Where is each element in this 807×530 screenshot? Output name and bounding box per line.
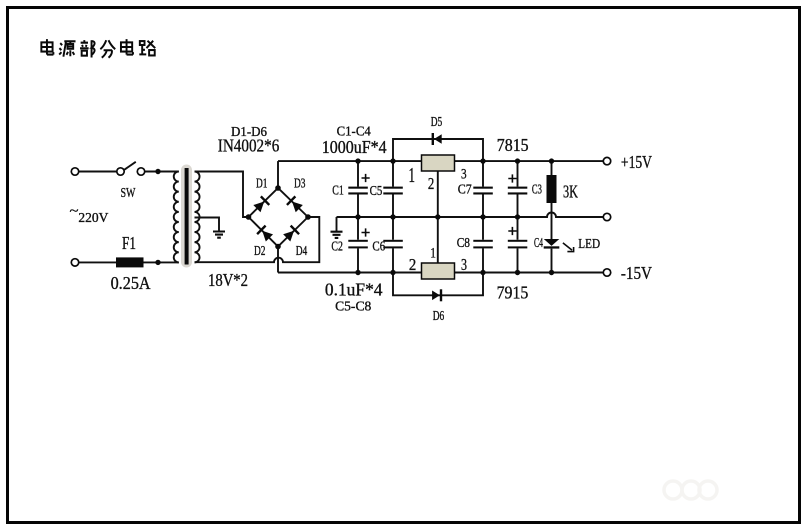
negative bottom rail	[278, 272, 603, 274]
svg-text:C3: C3	[532, 183, 542, 198]
diode D2	[256, 225, 273, 242]
regulator U2 7915 box	[422, 263, 455, 279]
C7/C8 column wires	[482, 161, 484, 272]
wire: secondary bottom to bridge right corner (hop over)	[195, 217, 320, 262]
terminal circles	[71, 157, 610, 276]
wire: fuse to transformer	[144, 261, 179, 263]
transformer secondary winding	[195, 172, 200, 263]
svg-text:2: 2	[428, 174, 434, 193]
junction dots	[155, 158, 554, 275]
svg-text:C1: C1	[332, 183, 344, 198]
svg-text:LED: LED	[578, 237, 600, 252]
C1 column wires	[357, 161, 359, 272]
fuse F1 body	[116, 257, 144, 267]
diode D6	[432, 289, 442, 301]
capacitor C3 plates	[508, 187, 528, 195]
svg-text:D3: D3	[294, 177, 306, 192]
svg-text:D6: D6	[433, 309, 445, 324]
svg-text:D5: D5	[431, 115, 443, 130]
svg-text:2: 2	[409, 255, 416, 274]
svg-text:F1: F1	[122, 233, 136, 253]
capacitor C4 plates	[508, 240, 528, 249]
svg-text:0.25A: 0.25A	[111, 273, 151, 293]
diode D3	[286, 196, 303, 213]
switch blade	[124, 162, 136, 170]
diode D4	[283, 225, 300, 242]
plus sign C1	[362, 174, 370, 182]
transformer primary winding	[174, 172, 179, 263]
svg-text:1000uF*4: 1000uF*4	[322, 137, 387, 157]
svg-text:18V*2: 18V*2	[208, 270, 248, 290]
3K / LED column wires	[551, 161, 553, 272]
wire: bridge top corner to +raw rail	[277, 161, 279, 188]
title char 路	[139, 41, 155, 56]
title char 部	[80, 40, 95, 57]
svg-text:220V: 220V	[78, 211, 108, 226]
resistor 3K body	[547, 175, 557, 203]
svg-text:SW: SW	[121, 186, 137, 201]
plus sign C4	[508, 227, 516, 235]
diode D1	[253, 196, 270, 213]
LED annotation arrow	[563, 243, 574, 252]
svg-text:D4: D4	[296, 244, 308, 259]
mid rail (0V) with hop over 3K wire	[337, 213, 604, 218]
title char 电	[41, 39, 53, 54]
svg-text:-15V: -15V	[621, 263, 652, 283]
title char 电	[121, 39, 133, 54]
ground G1 bars (center tap)	[213, 232, 225, 238]
svg-text:C4: C4	[534, 236, 543, 251]
svg-text:C7: C7	[458, 183, 472, 198]
svg-text:D2: D2	[254, 244, 266, 259]
C5 column wires	[392, 161, 394, 272]
regulator U1 7815 box	[422, 155, 455, 171]
plus sign C2	[362, 228, 370, 236]
svg-text:C5-C8: C5-C8	[335, 300, 371, 315]
svg-text:0.1uF*4: 0.1uF*4	[325, 280, 383, 300]
transformer core halo	[181, 165, 192, 268]
capacitor C1 plates	[348, 187, 368, 195]
svg-text:7915: 7915	[497, 282, 529, 302]
svg-text:7815: 7815	[497, 135, 529, 155]
capacitor C7 plates	[473, 187, 493, 195]
ground G2 bars (mid rail)	[331, 232, 343, 238]
diode D5	[432, 133, 442, 145]
LED diode symbol	[544, 239, 560, 246]
wire: bottom input left	[79, 261, 117, 263]
title char 分	[100, 40, 115, 57]
svg-text:C8: C8	[457, 236, 470, 251]
capacitor C8 plates	[473, 240, 493, 249]
transformer core	[185, 168, 189, 265]
capacitor C5 plates	[383, 187, 403, 195]
top rail	[278, 160, 603, 162]
D5 bypass wire	[393, 139, 483, 161]
svg-text:3: 3	[461, 167, 467, 183]
svg-text:+15V: +15V	[621, 152, 652, 172]
title char 源	[59, 41, 75, 56]
wire: bridge bottom corner down to negative rail	[277, 247, 279, 273]
C3/C4 column wires	[517, 161, 519, 272]
wire: switch to transformer	[145, 171, 179, 173]
svg-text:C6: C6	[372, 239, 385, 254]
svg-text:C2: C2	[331, 239, 343, 254]
plus sign C3	[508, 174, 516, 182]
svg-text:IN4002*6: IN4002*6	[218, 136, 280, 156]
D6 bypass wire	[393, 273, 483, 296]
svg-text:D1: D1	[256, 177, 268, 192]
capacitor C2 plates	[348, 240, 368, 249]
wire: secondary top to bridge left corner	[195, 172, 249, 218]
svg-text:3: 3	[461, 255, 467, 274]
svg-text:C5: C5	[370, 184, 383, 199]
regulator middle pins vertical	[437, 171, 439, 263]
ground G2 stem	[336, 217, 338, 231]
capacitor C6 plates	[383, 240, 403, 249]
svg-text:1: 1	[409, 163, 416, 187]
title 电源部分电路 (drawn glyphs)	[41, 39, 155, 58]
svg-text:1: 1	[430, 246, 436, 262]
bridge diamond edges	[249, 188, 309, 247]
svg-text:3K: 3K	[563, 181, 578, 201]
wire: top input left	[79, 171, 118, 173]
watermark	[664, 481, 717, 499]
wire: secondary center tap to ground	[195, 218, 220, 232]
